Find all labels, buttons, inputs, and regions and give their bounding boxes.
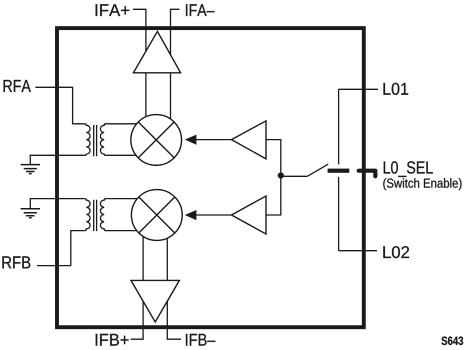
wire T2 secondary bottom: [105, 230, 145, 232]
wire L01 lead: [339, 88, 378, 90]
wire IFA- lead: [171, 9, 180, 125]
transformer T2 secondary coil: [100, 199, 105, 231]
package outline box: [57, 28, 364, 327]
wire junction to switch: [281, 175, 308, 177]
ground symbol A: [21, 165, 40, 174]
pin label IFB+: [96, 334, 129, 346]
switch blade SW1: [307, 164, 328, 176]
LO_SEL control dash 2 with elbow: [359, 171, 376, 177]
ground symbol B: [21, 209, 40, 218]
arrowhead into mixer A: [185, 135, 197, 145]
mixer A cross: [138, 122, 174, 158]
pin label IFA+: [96, 4, 130, 16]
figure number S643: [441, 337, 463, 346]
wire L01-L02 select link: [338, 89, 340, 250]
wire IFB+ lead: [131, 236, 144, 339]
LO buffer amp A: [232, 121, 267, 159]
pin label L02: [383, 246, 409, 258]
wire T1 secondary bottom: [105, 154, 145, 156]
wire IFB- lead: [167, 237, 181, 339]
pin label L0_SEL: [384, 161, 433, 177]
label Switch Enable: [383, 178, 461, 190]
transformer T1 secondary coil: [100, 124, 105, 156]
wire T1 secondary top: [105, 123, 145, 125]
junction dot: [278, 172, 284, 178]
wire T2 secondary top: [105, 198, 145, 200]
IF amplifier B: [131, 280, 179, 322]
mixer B circle: [131, 190, 182, 241]
pin label L01: [384, 83, 409, 95]
LO_SEL control dash 1: [328, 169, 350, 173]
wire RFA lead: [35, 87, 84, 124]
transformer T2 core: [94, 200, 97, 231]
wire IFA+ lead: [133, 9, 146, 125]
pin label IFA-: [186, 4, 214, 16]
wire LO B to mixer B: [195, 214, 232, 216]
IF amplifier A: [133, 31, 180, 72]
pin label IFB-: [186, 334, 215, 346]
wire LO amp outputs junction link: [266, 140, 281, 215]
arrowhead into mixer B: [185, 210, 197, 220]
wire LO A to mixer A: [195, 139, 232, 141]
mixer A circle: [131, 115, 182, 166]
transformer T1 primary coil: [85, 124, 90, 156]
wire ground A lead: [30, 155, 85, 164]
transformer T2 primary coil: [85, 199, 90, 231]
wire RFB lead: [37, 231, 85, 266]
transformer T1 core: [94, 125, 97, 156]
wire ground B lead: [30, 199, 85, 209]
LO buffer amp B: [232, 196, 267, 234]
pin label RFB: [2, 256, 30, 268]
pin label RFA: [4, 80, 31, 92]
wire L02 lead: [339, 250, 377, 252]
mixer B cross: [139, 197, 175, 233]
